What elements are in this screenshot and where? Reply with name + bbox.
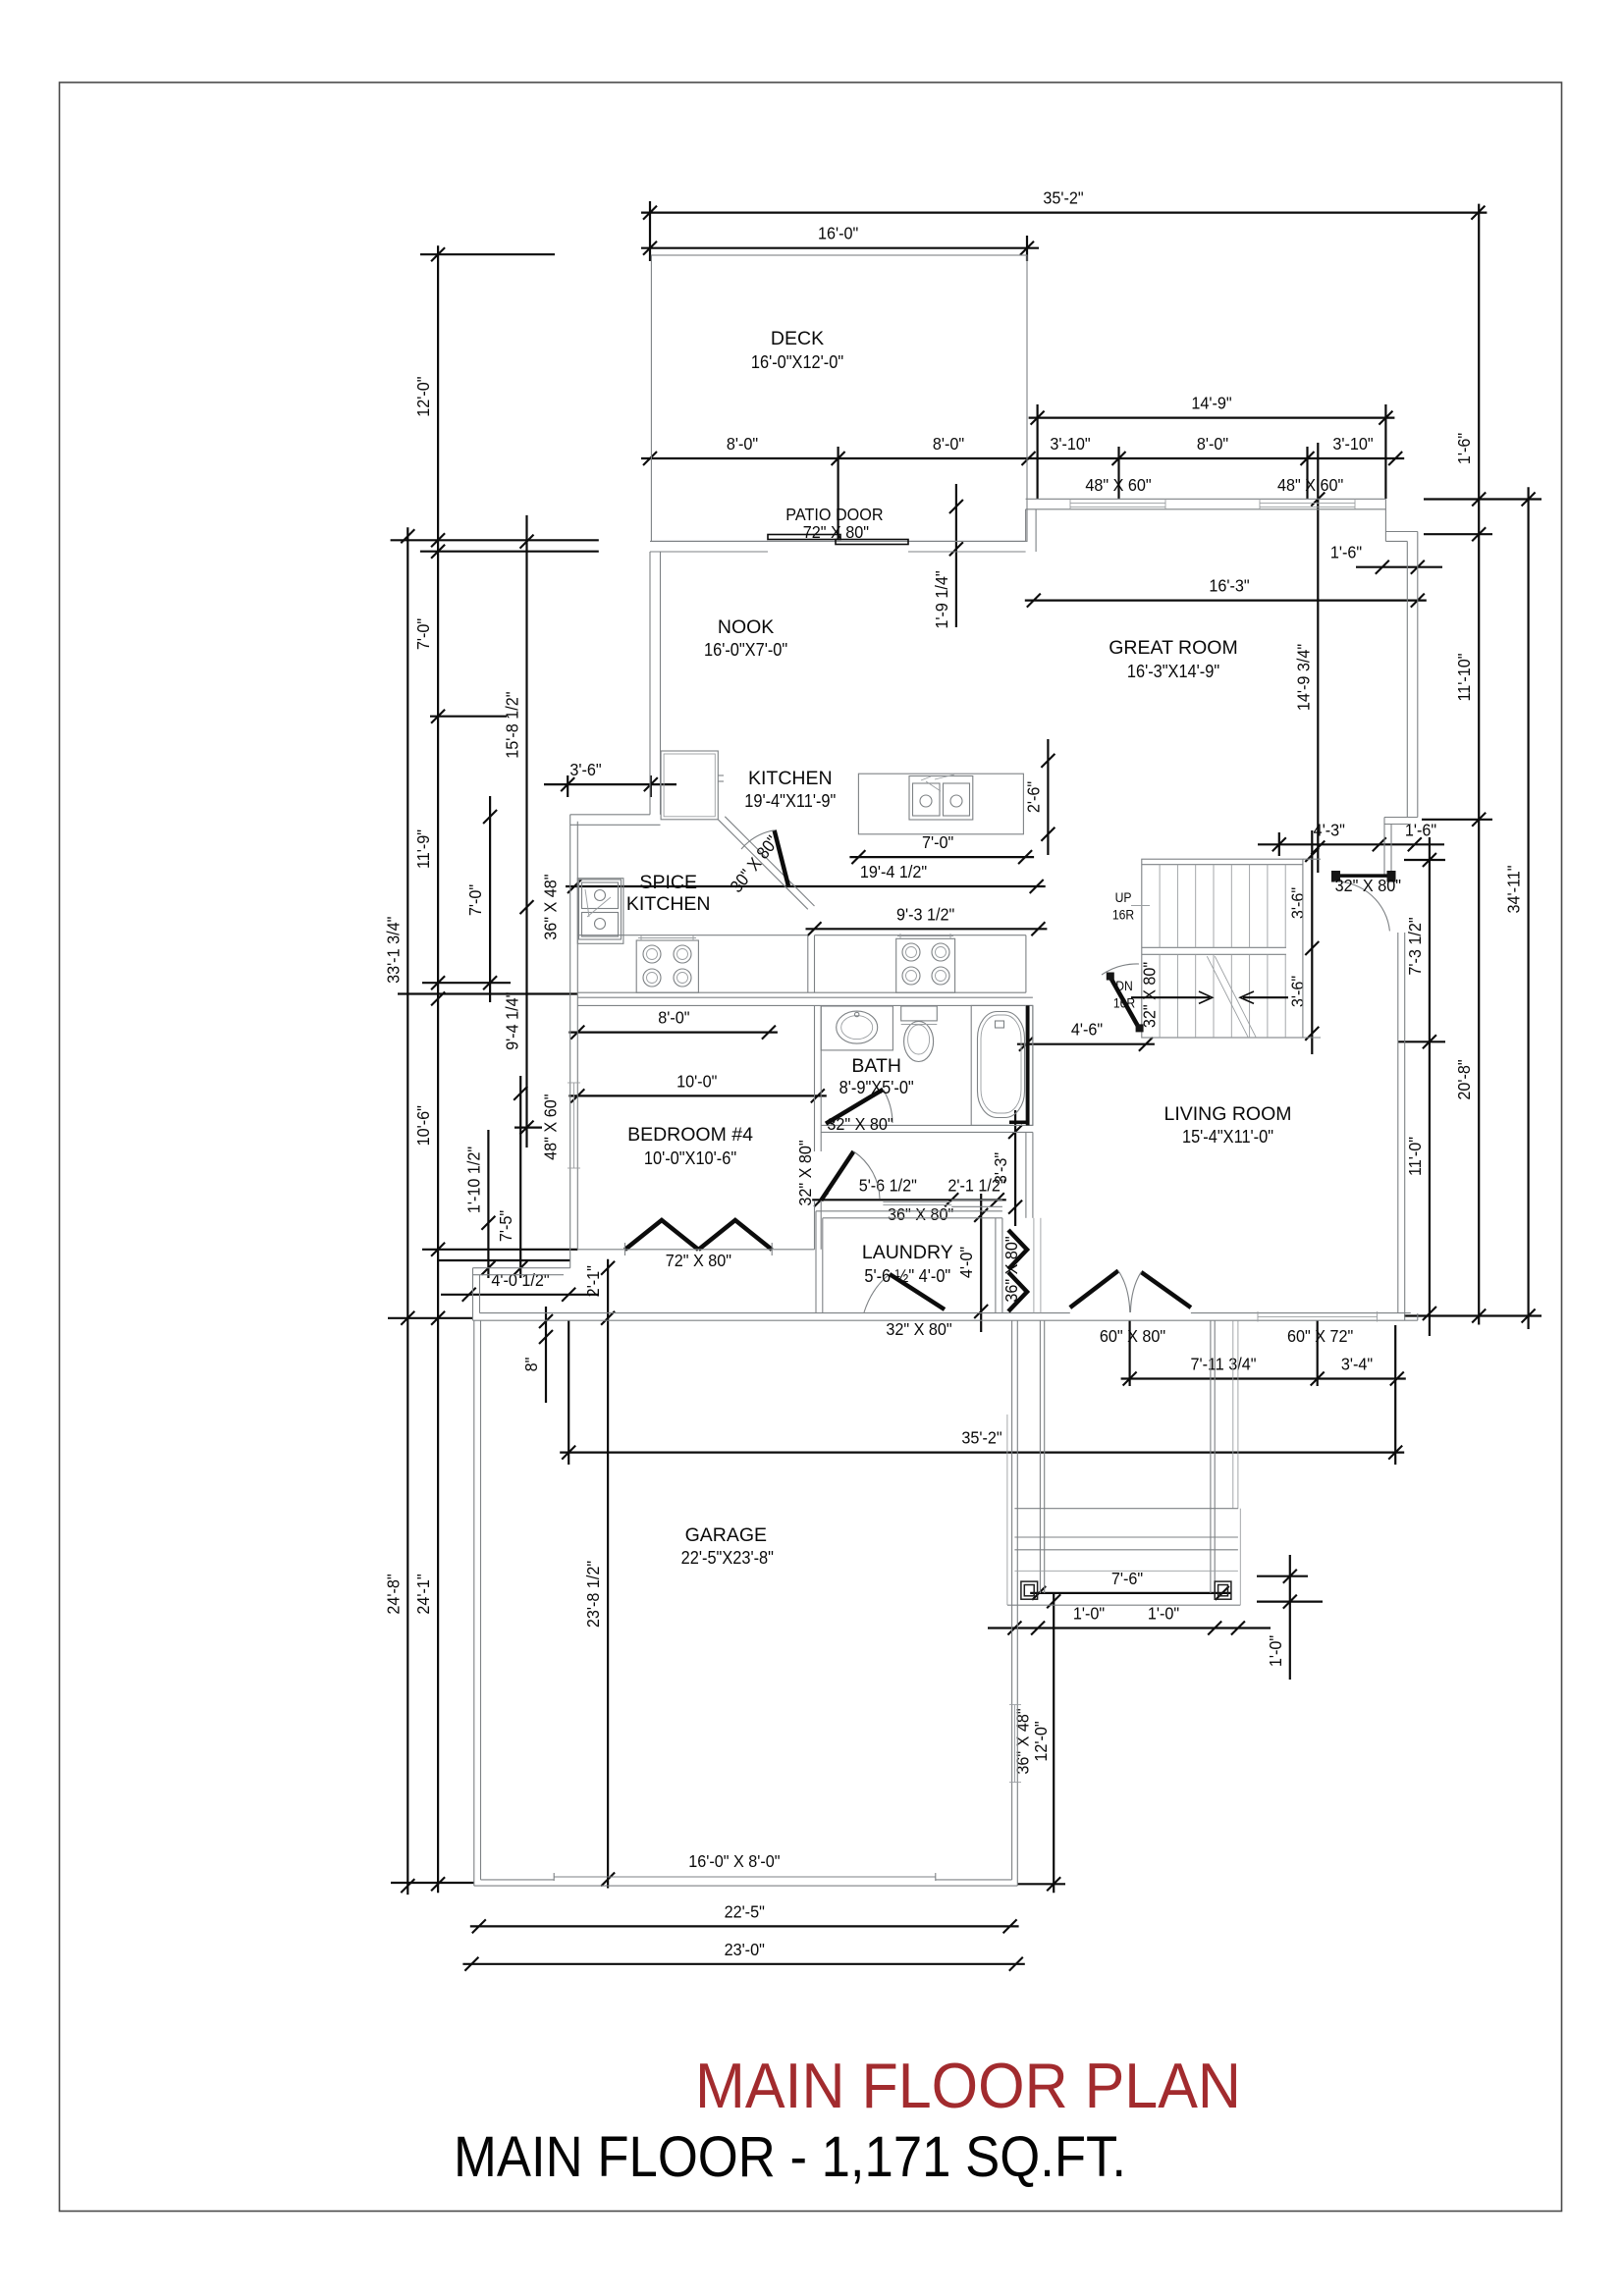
svg-text:4'-6": 4'-6" xyxy=(1071,1020,1103,1040)
dim chain left 12-0/7-0/11-9/10-6/24-1 xyxy=(437,245,439,1893)
svg-text:LAUNDRY: LAUNDRY xyxy=(862,1242,953,1263)
dim 35'-2" top xyxy=(641,212,1487,214)
svg-text:LIVING ROOM: LIVING ROOM xyxy=(1163,1103,1291,1125)
svg-text:32" X 80": 32" X 80" xyxy=(1335,876,1401,895)
bath door 32x80 xyxy=(826,1090,883,1124)
svg-text:15'-8 1/2": 15'-8 1/2" xyxy=(503,691,522,758)
garage window 36x48 xyxy=(1014,1705,1016,1783)
svg-text:35'-2": 35'-2" xyxy=(961,1428,1001,1448)
svg-text:60" X 72": 60" X 72" xyxy=(1287,1326,1353,1346)
porch steps xyxy=(1014,1508,1238,1510)
svg-text:11'-9": 11'-9" xyxy=(413,829,433,869)
spice kitchen sink counter xyxy=(577,879,623,944)
svg-text:23'-8 1/2": 23'-8 1/2" xyxy=(583,1561,603,1628)
stair direction arrows xyxy=(1131,996,1210,998)
svg-text:3'-4": 3'-4" xyxy=(1341,1355,1373,1374)
svg-text:NOOK: NOOK xyxy=(718,616,774,638)
svg-text:32" X 80": 32" X 80" xyxy=(886,1319,951,1339)
svg-text:16R: 16R xyxy=(1112,907,1134,923)
island double sink xyxy=(909,776,973,821)
dim 5'-6 1/2" / 2'-1 1/2" hall xyxy=(812,1199,1006,1201)
svg-text:8'-9"X5'-0": 8'-9"X5'-0" xyxy=(839,1077,914,1097)
svg-text:23'-0": 23'-0" xyxy=(725,1940,765,1959)
extension lines xyxy=(649,201,651,261)
svg-text:16'-0" X 8'-0": 16'-0" X 8'-0" xyxy=(688,1851,780,1871)
svg-text:33'-1 3/4": 33'-1 3/4" xyxy=(384,917,404,984)
garage east wall xyxy=(1016,1320,1018,1886)
svg-text:72" X 80": 72" X 80" xyxy=(666,1251,731,1270)
svg-text:11'-0": 11'-0" xyxy=(1405,1137,1425,1176)
tub xyxy=(971,1005,1033,1125)
dim 16'-0" deck xyxy=(641,247,1039,249)
svg-text:14'-9": 14'-9" xyxy=(1191,394,1231,413)
stair treads down xyxy=(1159,954,1161,1038)
great room east wall xyxy=(1417,532,1419,818)
dim 2'-1" / 23'-8 1/2" xyxy=(607,1259,609,1889)
dim 8'-0" bedroom top xyxy=(568,1031,778,1033)
dim 23'-0" garage xyxy=(462,1963,1024,1965)
dim garage 12'-0" / 36x48 xyxy=(1053,1592,1055,1893)
svg-text:36" X 48": 36" X 48" xyxy=(541,874,561,939)
svg-text:SPICE: SPICE xyxy=(639,872,697,893)
dim 2'-6" island xyxy=(1047,739,1049,855)
svg-text:48" X 60": 48" X 60" xyxy=(1085,475,1151,495)
svg-text:9'-4 1/4": 9'-4 1/4" xyxy=(503,992,522,1050)
svg-text:36" X 80": 36" X 80" xyxy=(888,1204,953,1224)
window 48x60 west xyxy=(573,1083,575,1168)
svg-text:15'-4"X11'-0": 15'-4"X11'-0" xyxy=(1182,1126,1273,1147)
svg-text:3'-10": 3'-10" xyxy=(1332,434,1373,454)
stair treads up xyxy=(1159,865,1161,948)
svg-text:GARAGE: GARAGE xyxy=(685,1524,767,1546)
porch walls xyxy=(1039,1320,1041,1593)
window 60x72 south xyxy=(1258,1315,1378,1317)
svg-text:MAIN FLOOR PLAN: MAIN FLOOR PLAN xyxy=(695,2050,1241,2121)
svg-text:14'-9 3/4": 14'-9 3/4" xyxy=(1294,644,1314,711)
svg-text:KITCHEN: KITCHEN xyxy=(626,893,711,915)
svg-text:32" X 80": 32" X 80" xyxy=(1140,962,1160,1028)
dim left 7'-0" kitchen xyxy=(489,796,491,1002)
dim right chain 1-6/11-10/20-8 xyxy=(1478,204,1480,1325)
dim left 15'-8 1/2" / 9'-4 1/4" xyxy=(525,515,527,1148)
svg-text:10'-6": 10'-6" xyxy=(413,1105,433,1146)
porch post right xyxy=(1215,1581,1231,1599)
svg-text:16'-3": 16'-3" xyxy=(1209,576,1249,596)
laundry door 32x80 xyxy=(890,1274,945,1309)
dim 35'-2" bottom xyxy=(560,1451,1404,1453)
svg-text:19'-4"X11'-9": 19'-4"X11'-9" xyxy=(744,790,836,811)
svg-text:11'-10": 11'-10" xyxy=(1454,653,1474,701)
bedroom door 32x80 xyxy=(821,1151,853,1201)
svg-text:32" X 80": 32" X 80" xyxy=(795,1140,815,1205)
window 48x60 left xyxy=(1070,502,1165,504)
dim right 34'-11" xyxy=(1527,487,1529,1329)
svg-text:20'-8": 20'-8" xyxy=(1454,1059,1474,1099)
bifold 36x80 entry closet xyxy=(1008,1230,1027,1269)
svg-text:60" X 80": 60" X 80" xyxy=(1100,1326,1165,1346)
svg-text:16'-0"X12'-0": 16'-0"X12'-0" xyxy=(751,351,843,372)
west wall xyxy=(569,815,571,1268)
dim right 7'-3 1/2" / 11'-0" xyxy=(1429,837,1431,1336)
svg-text:34'-11": 34'-11" xyxy=(1504,865,1524,913)
patio door 72x80 xyxy=(768,535,840,540)
kitchen angled wall xyxy=(718,820,808,910)
bedroom closet bifold 72x80 xyxy=(625,1220,699,1250)
garage west wall xyxy=(473,1320,475,1886)
door 32x80 great-living xyxy=(1334,874,1391,878)
svg-text:1'-0": 1'-0" xyxy=(1266,1635,1285,1667)
svg-text:KITCHEN: KITCHEN xyxy=(748,768,833,789)
dim 7'-5" xyxy=(519,1076,521,1278)
svg-text:BATH: BATH xyxy=(851,1055,901,1077)
hall south wall + pocket door 36x80 xyxy=(951,1199,1002,1201)
svg-text:3'-6": 3'-6" xyxy=(1288,976,1308,1007)
dim 3'-3" xyxy=(1014,1110,1016,1226)
svg-text:5'-6 ½" 4'-0": 5'-6 ½" 4'-0" xyxy=(864,1265,950,1286)
bath south wall xyxy=(821,1124,1033,1126)
great room north wall with windows xyxy=(1026,498,1386,500)
svg-text:35'-2": 35'-2" xyxy=(1043,188,1083,208)
svg-text:16'-3"X14'-9": 16'-3"X14'-9" xyxy=(1127,661,1219,681)
svg-text:UP: UP xyxy=(1115,889,1132,905)
svg-text:36" X 80": 36" X 80" xyxy=(1001,1236,1021,1302)
dim 19'-4 1/2" kitchen xyxy=(566,885,1046,887)
svg-text:8": 8" xyxy=(521,1358,541,1372)
bath vanity xyxy=(821,1006,893,1050)
svg-text:3'-6": 3'-6" xyxy=(569,760,601,779)
dim 4'-0" laundry xyxy=(980,1194,982,1332)
DN door 32x80 xyxy=(1109,977,1139,1029)
south wall main xyxy=(473,1319,1418,1321)
dim 14'-9 3/4" great room xyxy=(1317,443,1319,873)
deck outline xyxy=(651,255,1027,541)
dim 7'-0" island xyxy=(849,856,1034,858)
dim 9'-3 1/2" kitchen xyxy=(806,928,1048,930)
bath east wall xyxy=(1025,1005,1027,1125)
stair break lines xyxy=(1207,956,1248,1038)
spice sink xyxy=(579,880,622,939)
svg-text:1'-6": 1'-6" xyxy=(1330,543,1362,562)
svg-text:7'-0": 7'-0" xyxy=(413,618,433,650)
svg-text:5'-6 1/2": 5'-6 1/2" xyxy=(859,1176,917,1196)
svg-text:36" X 48": 36" X 48" xyxy=(1013,1708,1033,1774)
svg-text:22'-5": 22'-5" xyxy=(725,1902,765,1922)
svg-text:7'-6": 7'-6" xyxy=(1111,1569,1143,1588)
svg-text:MAIN FLOOR - 1,171 SQ.FT.: MAIN FLOOR - 1,171 SQ.FT. xyxy=(454,2125,1126,2189)
stove right xyxy=(896,938,955,992)
dim 1'-6" top right xyxy=(1356,566,1442,568)
svg-text:8'-0": 8'-0" xyxy=(658,1008,689,1028)
bump-out walls xyxy=(473,1267,570,1269)
svg-text:3'-3": 3'-3" xyxy=(991,1152,1010,1184)
svg-text:10'-0"X10'-6": 10'-0"X10'-6" xyxy=(644,1148,736,1168)
dim 7'-11 3/4" / 3'-4" xyxy=(1121,1377,1406,1379)
dim 4'-3" / 1'-6" hall top xyxy=(1258,843,1444,845)
hall east wall below bath xyxy=(1025,1132,1027,1217)
stove left xyxy=(636,940,698,992)
SE step wall great room xyxy=(1384,817,1418,819)
dim stairs 3'-6" 3'-6" xyxy=(1311,830,1313,1054)
dim row 8-0/8-0/3-10/8-0/3-10 xyxy=(641,457,1404,459)
svg-text:4'-0": 4'-0" xyxy=(956,1247,976,1278)
french doors 60x80 xyxy=(1070,1271,1118,1308)
svg-text:8'-0": 8'-0" xyxy=(1197,434,1228,454)
svg-text:16'-0"X7'-0": 16'-0"X7'-0" xyxy=(704,639,787,660)
dim 4'-6" bath-stairs xyxy=(1017,1043,1155,1045)
garage door 16x8 xyxy=(554,1876,936,1878)
svg-text:48" X 60": 48" X 60" xyxy=(541,1095,561,1160)
svg-text:GREAT ROOM: GREAT ROOM xyxy=(1109,637,1237,659)
svg-text:48" X 60": 48" X 60" xyxy=(1277,475,1343,495)
window 48x60 right xyxy=(1260,502,1355,504)
svg-text:2'-1": 2'-1" xyxy=(583,1265,603,1297)
svg-text:DECK: DECK xyxy=(771,328,824,349)
dim 3'-6" kitchen left xyxy=(544,783,676,785)
svg-text:24'-1": 24'-1" xyxy=(413,1574,433,1614)
svg-text:24'-8": 24'-8" xyxy=(384,1574,404,1614)
svg-text:8'-0": 8'-0" xyxy=(933,434,964,454)
nook west wall xyxy=(649,552,651,815)
fridge xyxy=(661,751,718,820)
svg-text:8'-0": 8'-0" xyxy=(727,434,758,454)
svg-text:7'-3 1/2": 7'-3 1/2" xyxy=(1405,917,1425,975)
laundry walls xyxy=(815,1211,817,1313)
svg-text:1'-6": 1'-6" xyxy=(1405,821,1436,840)
svg-text:19'-4 1/2": 19'-4 1/2" xyxy=(860,862,927,881)
nook north wall xyxy=(650,540,768,542)
toilet xyxy=(901,1006,938,1021)
dim 4'-0 1/2" bump xyxy=(441,1294,598,1296)
dim 1'-10 1/2" xyxy=(487,1130,489,1278)
kitchen / bath dividing wall xyxy=(577,996,1033,998)
garage south wall xyxy=(474,1885,1018,1887)
svg-text:12'-0": 12'-0" xyxy=(413,376,433,416)
wall deck-house connector xyxy=(1025,509,1027,542)
kitchen counters xyxy=(577,934,808,936)
svg-text:9'-3 1/2": 9'-3 1/2" xyxy=(896,905,954,925)
bedroom east wall xyxy=(814,1005,816,1151)
dim 14'-9" xyxy=(1029,417,1395,419)
kitchen island xyxy=(858,774,1023,834)
dim 16'-3" great room xyxy=(1025,599,1427,601)
dim 22'-5" garage xyxy=(470,1925,1019,1927)
svg-text:1'-9 1/4": 1'-9 1/4" xyxy=(932,570,951,628)
svg-text:10'-0": 10'-0" xyxy=(676,1072,717,1092)
living east wall xyxy=(1417,1313,1419,1320)
svg-text:1'-10 1/2": 1'-10 1/2" xyxy=(464,1147,484,1213)
svg-text:7'-11 3/4": 7'-11 3/4" xyxy=(1190,1355,1256,1374)
svg-text:1'-6": 1'-6" xyxy=(1454,433,1474,464)
svg-text:22'-5"X23'-8": 22'-5"X23'-8" xyxy=(681,1547,774,1568)
entry closet east wall xyxy=(1033,1218,1035,1313)
svg-text:1'-0": 1'-0" xyxy=(1148,1604,1179,1624)
dim 1'-9 1/4" patio xyxy=(955,484,957,627)
svg-text:3'-10": 3'-10" xyxy=(1050,434,1090,454)
kitchen step wall xyxy=(570,814,650,816)
svg-text:12'-0": 12'-0" xyxy=(1031,1721,1051,1761)
stairs outline xyxy=(1142,859,1303,1038)
dim 8" xyxy=(545,1307,547,1403)
porch post left xyxy=(1021,1581,1038,1599)
dim 7'-6" porch xyxy=(1030,1592,1231,1594)
dim 10'-0" bedroom xyxy=(568,1095,827,1096)
dim 1'-0" 1'-0" porch xyxy=(988,1627,1271,1629)
NE step wall xyxy=(1384,499,1386,541)
svg-text:16'-0": 16'-0" xyxy=(818,224,858,243)
svg-text:7'-0": 7'-0" xyxy=(922,832,953,852)
dim left 33'-1 3/4" / 24'-8" xyxy=(406,527,408,1895)
door 30x80 angled xyxy=(775,830,788,886)
svg-text:1'-0": 1'-0" xyxy=(1073,1604,1105,1624)
svg-text:PATIO DOOR: PATIO DOOR xyxy=(785,505,883,524)
svg-text:72" X 80": 72" X 80" xyxy=(803,522,869,542)
svg-text:BEDROOM #4: BEDROOM #4 xyxy=(627,1124,753,1146)
svg-text:7'-5": 7'-5" xyxy=(496,1210,515,1242)
svg-text:32" X 80": 32" X 80" xyxy=(827,1114,893,1134)
dim 1'-0" porch right xyxy=(1289,1555,1291,1680)
svg-text:7'-0": 7'-0" xyxy=(465,884,485,916)
svg-text:2'-6": 2'-6" xyxy=(1024,781,1044,813)
svg-text:3'-6": 3'-6" xyxy=(1288,887,1308,919)
